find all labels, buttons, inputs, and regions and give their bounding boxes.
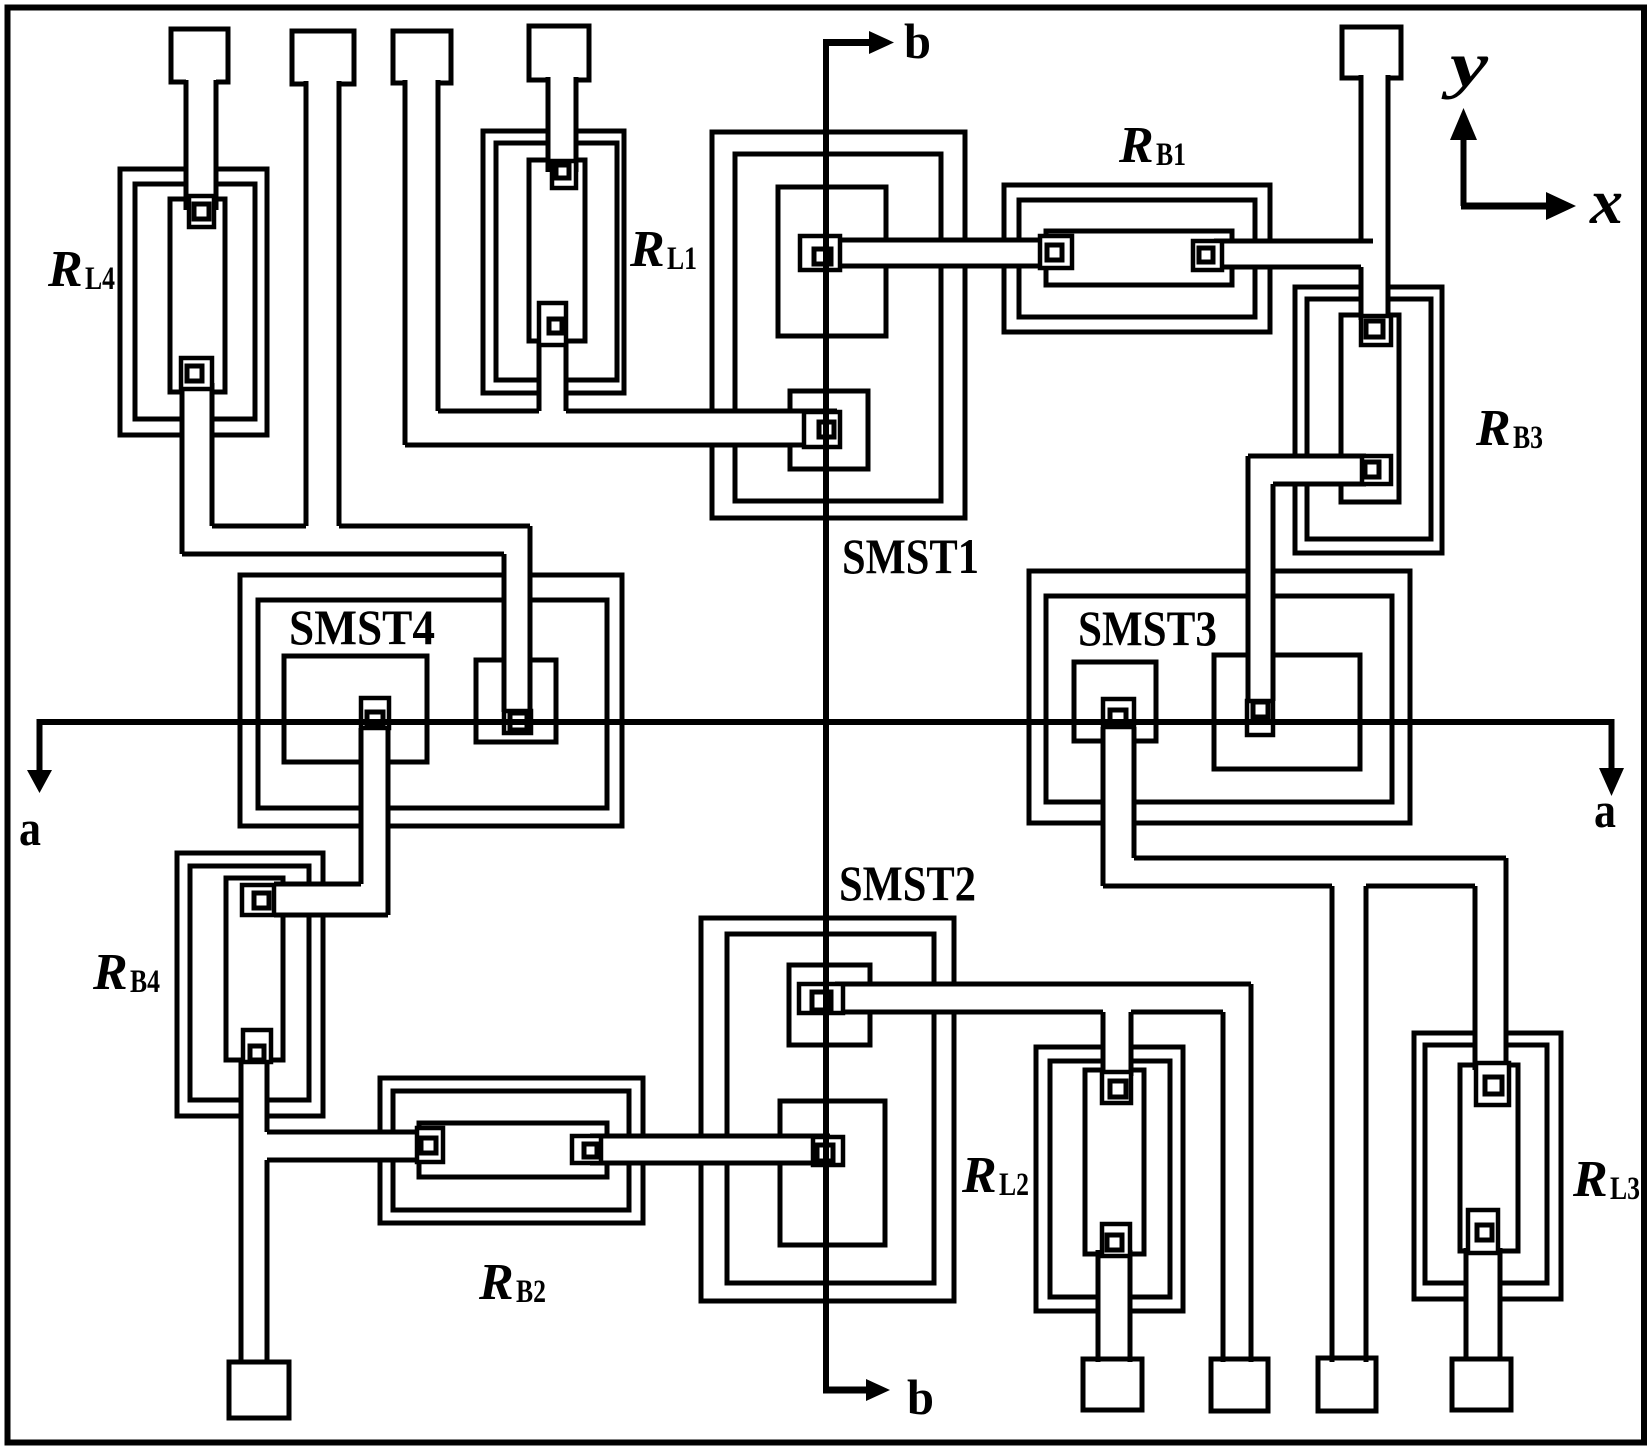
svg-text:L2: L2 [999, 1167, 1029, 1203]
svg-text:SMST2: SMST2 [839, 855, 976, 911]
wire RL2 bottom contact to pad P6 [1083, 1245, 1142, 1410]
contact RB4 bottom [243, 1030, 271, 1062]
svg-text:a: a [19, 800, 41, 856]
label RB4 [92, 944, 160, 1001]
wire branch to bottom pad P8 [1318, 872, 1376, 1411]
transistor SMST2 body [701, 918, 954, 1301]
label a left [19, 800, 41, 856]
contact RL3 top [1476, 1063, 1509, 1105]
label SMST3 [1078, 600, 1217, 656]
label RB3 [1475, 400, 1543, 457]
svg-text:L4: L4 [85, 261, 115, 297]
wire RB2 left contact joining RB4 wire [258, 1132, 430, 1160]
section line a-a horizontal [27, 719, 1624, 796]
label SMST2 [839, 855, 976, 911]
resistor RL2 body [1036, 1047, 1183, 1311]
resistor RB2 body [380, 1078, 643, 1223]
svg-text:L3: L3 [1610, 1171, 1640, 1207]
svg-text:SMST1: SMST1 [842, 528, 979, 584]
svg-text:b: b [904, 13, 931, 69]
contact RB2 right [572, 1136, 601, 1163]
resistor RL1 body [483, 131, 624, 393]
svg-text:R: R [629, 221, 665, 278]
contact RB1 left [1040, 236, 1072, 268]
contact RL4 top [189, 196, 214, 227]
contact SMST3 right [1247, 701, 1273, 735]
contact RB1 right [1193, 241, 1222, 270]
svg-text:B3: B3 [1513, 420, 1543, 456]
pad P1 top-left and wire to RL4 top contact [171, 29, 228, 210]
wire RB3 bottom contact to SMST3 right contact [1248, 456, 1370, 701]
contact RB3 top [1361, 316, 1391, 345]
svg-text:B2: B2 [516, 1274, 546, 1310]
wire SMST1 top contact to RB1 left contact [830, 240, 1050, 266]
wire RB4 bottom contact to pad P0 [229, 1050, 289, 1418]
label SMST4 [289, 599, 435, 655]
pad P2 and wire joining RL4-SMST4 wire [292, 31, 354, 533]
resistor RL3 body [1414, 1033, 1561, 1299]
svg-text:SMST4: SMST4 [289, 599, 435, 655]
label a right [1594, 782, 1616, 838]
svg-text:R: R [1475, 400, 1511, 457]
contact RB3 bottom [1362, 456, 1391, 484]
contact RL3 bottom [1468, 1210, 1498, 1253]
contact RL2 top [1102, 1072, 1131, 1103]
wire RL4 bottom contact to SMST4 right contact [182, 370, 530, 712]
svg-text:SMST3: SMST3 [1078, 600, 1217, 656]
svg-text:x: x [1589, 166, 1623, 237]
pad P5 top-right and wire to RB3 top contact [1342, 27, 1401, 330]
pad P3 and wire to SMST1 lower contact [393, 31, 837, 445]
contact RL1 bottom [539, 303, 566, 345]
label RB2 [478, 1254, 546, 1311]
svg-text:L1: L1 [667, 241, 697, 277]
svg-text:R: R [92, 944, 128, 1001]
wire RL1 bottom contact joining P3 wire [539, 340, 566, 422]
section line b-b vertical [823, 31, 894, 1401]
contact SMST2 lower [813, 1137, 843, 1165]
wire RB1 right contact to P5 wire [1214, 241, 1383, 267]
label b top [904, 13, 931, 69]
svg-text:a: a [1594, 782, 1616, 838]
svg-text:R: R [961, 1147, 997, 1204]
contact RL1 top [552, 161, 576, 188]
svg-text:R: R [1118, 117, 1154, 174]
label RL1 [629, 221, 697, 278]
transistor SMST3 body [1029, 571, 1410, 823]
contact RB2 left [417, 1128, 443, 1162]
contact SMST2 top [799, 984, 843, 1013]
label SMST1 [842, 528, 979, 584]
contact SMST1 top [800, 236, 840, 270]
wire RL2 top contact joining SMST2 wire [1103, 1000, 1131, 1085]
svg-text:B1: B1 [1156, 137, 1186, 173]
contact SMST1 lower [804, 412, 840, 447]
label RL2 [961, 1147, 1029, 1204]
svg-text:R: R [1572, 1151, 1608, 1208]
contact SMST4 center [361, 698, 389, 728]
label b bottom [907, 1369, 934, 1425]
resistor RB3 body [1295, 287, 1442, 553]
wire SMST2 lower contact to RB2 right contact [590, 1136, 835, 1163]
label RL3 [1572, 1151, 1640, 1208]
label RB1 [1118, 117, 1186, 174]
label y axis [1441, 29, 1489, 100]
contact SMST3 left [1103, 699, 1134, 727]
contact SMST4 right [504, 711, 531, 733]
svg-text:R: R [478, 1254, 514, 1311]
label x axis [1589, 166, 1623, 237]
contact RL4 bottom [181, 358, 212, 389]
wire SMST3 left contact to RL3 top contact [1103, 715, 1506, 1075]
svg-text:R: R [47, 241, 83, 298]
contact RL2 bottom [1102, 1224, 1130, 1256]
pad P4 and wire to RL1 top contact [529, 26, 589, 178]
contact RB4 top [242, 885, 274, 915]
transistor SMST1 body [712, 132, 965, 518]
svg-text:B4: B4 [130, 964, 160, 1000]
transistor SMST4 body [240, 575, 622, 826]
resistor RL4 body [120, 169, 267, 435]
wire SMST2 top contact to bottom pad P7 [835, 984, 1268, 1411]
resistor RB1 body [1004, 185, 1270, 332]
wire RL3 bottom contact to pad P9 [1452, 1240, 1511, 1410]
coordinate axes x-y [1450, 108, 1576, 220]
resistor RB4 body [177, 853, 323, 1116]
wire RB4 top contact to SMST4 center contact [266, 715, 388, 915]
svg-text:b: b [907, 1369, 934, 1425]
label RL4 [47, 241, 115, 298]
